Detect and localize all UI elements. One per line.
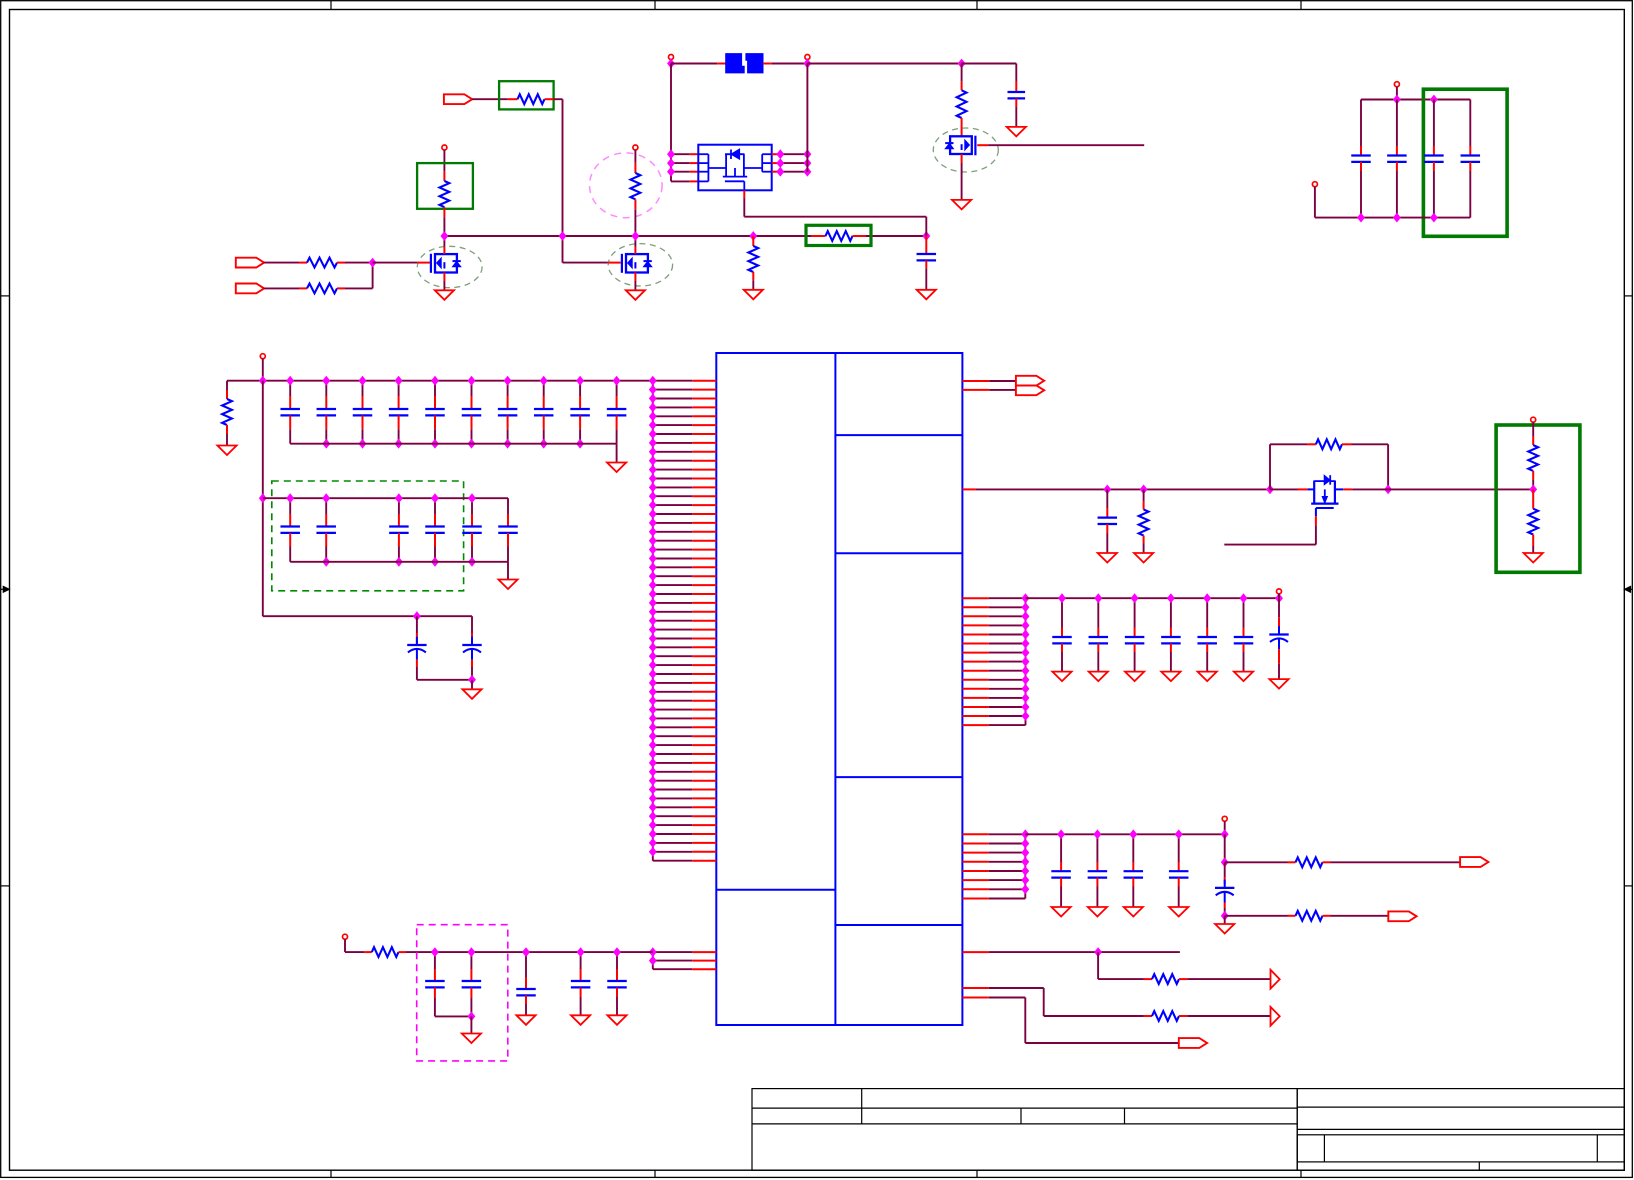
M2 source lead down	[634, 273, 636, 282]
U1 right pin wire D1 (y=952.1)	[962, 951, 989, 953]
wire P4 to R2	[264, 287, 299, 289]
title block right row line 2	[1297, 1128, 1624, 1130]
U1 left pin wire 44	[653, 762, 693, 764]
junction U1 left pin 22	[650, 563, 657, 571]
ground below divider	[1524, 553, 1543, 563]
junction U1 left pin 44	[650, 759, 657, 767]
junction U2 right pin 2 dots	[777, 159, 784, 167]
U1 left pin wire 8	[653, 442, 693, 444]
capacitor C-snub at right end of VSW	[925, 236, 927, 254]
fuse F1 (solid blue body)	[726, 54, 745, 73]
capacitor C3 (on net B)	[1106, 489, 1108, 508]
feed wire to bulk caps y=616.2	[263, 615, 472, 617]
port P4 (bottom left input 2)	[236, 284, 264, 294]
U2 right pin wire 2	[772, 162, 781, 164]
vertical feed from T3 to dual-FET left pins x=671.4	[670, 64, 672, 182]
resistor RN1 (horizontal, in green box)	[508, 98, 518, 100]
junction group3 pin 9	[1022, 667, 1029, 675]
capacitor C11a	[1360, 100, 1362, 147]
junction C7b on net	[468, 948, 475, 956]
capacitor C2d (group 2 4)	[434, 498, 436, 514]
U1 left pin wire 46	[653, 780, 693, 782]
magenta dashed group box around C7a/C7b	[417, 925, 508, 1061]
title block left section outline	[752, 1089, 1297, 1171]
U1 left pin wire 28	[653, 620, 693, 622]
junction quad bottom at C11a	[1358, 214, 1365, 222]
U1 left pin wire 54	[653, 851, 693, 853]
wire net-B junction to Q4 left stub	[1270, 488, 1298, 490]
wire Q4 right stub to junction	[1352, 488, 1388, 490]
T11 stub down to bottom bus	[1314, 187, 1316, 218]
terminal T3 (left of fuse F1)	[669, 55, 674, 60]
U1 bottom-left pin wire 2	[653, 960, 693, 962]
ground below R11	[1134, 553, 1153, 563]
terminal T11 (return of quad cap group)	[1312, 182, 1317, 187]
junction U1 left pin 7	[650, 430, 657, 438]
junction group4 pin 6	[1022, 876, 1029, 884]
junction top bank bottom bus 7	[540, 440, 547, 448]
junction U1 left pin 23	[650, 572, 657, 580]
U1 left pin wire 31	[653, 646, 693, 648]
junction C5a top	[1058, 830, 1065, 838]
resistor R4 (vertical, in green box)	[443, 172, 445, 181]
U1 right group3 pin wire 3	[962, 615, 989, 617]
junction U1 left pin 9	[650, 448, 657, 456]
Q3 gate lead wire to the right	[977, 144, 988, 146]
resistor R6 (vertical to ground)	[752, 236, 754, 246]
resistor R1 (horizontal)	[299, 262, 307, 264]
title block left row line 2	[752, 1123, 1297, 1125]
junction U1 left pin 1 (bus top)	[650, 377, 657, 385]
quad cap bottom bus y=217.6	[1315, 217, 1470, 219]
U1 right group3 pin wire 10	[962, 679, 989, 681]
junction C1g top	[504, 377, 511, 385]
junction group2 top bus	[396, 494, 403, 502]
junction U2 right pin 1 dots	[777, 150, 784, 158]
ground below C5b	[1088, 907, 1107, 917]
junction bulk rail at CB2	[469, 676, 476, 684]
ground below group2	[498, 580, 517, 590]
junction U2 right pin 3 dots	[777, 168, 784, 176]
junction U1 left pin 19	[650, 537, 657, 545]
junction VSW at C-snub	[923, 232, 930, 240]
U1 left pin wire 13	[653, 486, 693, 488]
junction group2 bottom bus	[323, 558, 330, 566]
M2 drain lead up to bus	[634, 236, 636, 247]
capacitor C1h (top bank 8)	[543, 381, 545, 396]
capacitor C1j (top bank 10)	[616, 381, 618, 396]
junction C7a on net	[432, 948, 439, 956]
vertical feed wire x=262.8 from bus1 down	[262, 381, 264, 617]
U1 left pin wire 41	[653, 735, 693, 737]
junction group3 pin 3	[1022, 612, 1029, 620]
ground below R9	[217, 446, 236, 456]
junction group4 bus end	[1221, 830, 1228, 838]
U1 left pin wire 19	[653, 540, 693, 542]
junction U1 bottom-left pin 2	[650, 957, 657, 965]
junction U1 left pin 35	[650, 679, 657, 687]
junction U1 left pin 25	[650, 590, 657, 598]
U2 right pin wire 1	[772, 153, 781, 155]
junction U1 left pin 5	[650, 412, 657, 420]
junction C4e top	[1204, 594, 1211, 602]
U1 left pin wire 26	[653, 602, 693, 604]
capacitor C1c (top bank 3)	[362, 381, 364, 396]
junction group2 bottom bus	[396, 558, 403, 566]
junction C7 rail	[468, 1012, 475, 1020]
wire C7 rail to ground	[470, 1016, 472, 1033]
junction top bank bottom bus 4	[432, 440, 439, 448]
wire net-B to divider green box	[1388, 488, 1533, 490]
junction U1 left pin 18	[650, 528, 657, 536]
U1 left pin wire 50	[653, 815, 693, 817]
capacitor C4a (group3 1)	[1061, 598, 1063, 627]
junction C1b top	[323, 377, 330, 385]
capacitor C5d (group4 4)	[1178, 834, 1180, 862]
junction net-B at R11	[1140, 485, 1147, 493]
junction node G1	[369, 259, 376, 267]
junction U1 left pin 29	[650, 626, 657, 634]
border zone tick top 3	[976, 1, 978, 10]
wire group2 to ground	[507, 562, 509, 580]
U1 left pin wire 17	[653, 522, 693, 524]
bulk capacitor CB1 (polarized)	[416, 616, 418, 633]
junction group4 pin 7	[1022, 885, 1029, 893]
U2 internal body diode	[731, 149, 740, 159]
U1 right pin wire D3 (y=997.5)	[962, 997, 989, 999]
bottom supply net y=952.1	[406, 951, 653, 953]
junction group3 pin 5	[1022, 630, 1029, 638]
ground below C8	[516, 1015, 535, 1025]
ground below C5a	[1052, 907, 1071, 917]
bulk capacitor CB2 (polarized)	[471, 616, 473, 633]
wire R15 to port P8	[1331, 915, 1389, 917]
green highlight box around resistor RN1	[499, 81, 553, 109]
junction group4 pin 3	[1022, 849, 1029, 857]
junction U1 left pin 40	[650, 723, 657, 731]
junction C1i top	[577, 377, 584, 385]
transistor M1 (N-MOSFET, dashed ellipse)	[417, 246, 482, 287]
IC U1 right column divider 2	[835, 552, 962, 554]
junction bulk cap CB1	[414, 612, 421, 620]
wire T3 stub	[670, 60, 672, 64]
junction group3 pin 1	[1022, 594, 1029, 602]
junction U1 left pin 47	[650, 785, 657, 793]
wire D3 down	[1024, 998, 1026, 1044]
U1 left pin wire 53	[653, 842, 693, 844]
U1 right group3 pin wire 4	[962, 624, 989, 626]
dual-FET U2 left pin wire 1	[671, 153, 690, 155]
terminal T10 (top of quad cap group)	[1394, 82, 1399, 87]
arrow A2 (open output arrow)	[1271, 1007, 1280, 1026]
junction net-B at Q4 left	[1267, 485, 1274, 493]
capacitor C1i (top bank 9)	[579, 381, 581, 396]
junction top bank bottom bus 5	[468, 440, 475, 448]
wire R5 to bus junction	[634, 210, 636, 236]
title block left divider B	[1020, 1108, 1022, 1124]
IC U1 internal divider vertical	[834, 353, 836, 1025]
ground below C5d	[1169, 907, 1188, 917]
U1 left pin wire 16	[653, 513, 693, 515]
junction U1 left pin 37	[650, 697, 657, 705]
U1 left pin wire 23	[653, 575, 693, 577]
wire R4 to bus junction	[443, 217, 445, 236]
U1 left pin wire 10	[653, 460, 693, 462]
wire RC bottom to ground	[1224, 916, 1226, 924]
IC U1 left pin field bus x=652.8	[652, 381, 654, 861]
border centering arrow left	[1, 588, 10, 590]
ground below C7 group	[462, 1034, 481, 1044]
M1 source lead down	[443, 273, 445, 282]
junction C5b top	[1094, 830, 1101, 838]
junction U1 left pin 6	[650, 421, 657, 429]
Q4 substrate arrow	[1324, 489, 1326, 496]
ground below C4f	[1234, 672, 1253, 682]
U1 left pin wire 21	[653, 558, 693, 560]
junction U1 left pin 14	[650, 492, 657, 500]
junction U1 left pin 38	[650, 706, 657, 714]
ground below C4a	[1052, 672, 1071, 682]
U1 left pin wire 39	[653, 717, 693, 719]
junction group4 pin 4	[1022, 858, 1029, 866]
junction top bank bottom bus 1	[323, 440, 330, 448]
U1 left pin wire 15	[653, 504, 693, 506]
U1 left pin wire 2	[653, 389, 693, 391]
terminal T1 above R4	[442, 145, 447, 150]
junction U1 left pin 43	[650, 750, 657, 758]
ground below C4c	[1125, 672, 1144, 682]
resistor R9 (bleed, left of cap bank)	[226, 381, 228, 390]
border zone tick right 2	[1624, 885, 1632, 887]
wire D2 to R17	[1044, 1015, 1144, 1017]
resistor R13 (divider bottom)	[1532, 489, 1534, 508]
U1 left pin wire 18	[653, 531, 693, 533]
wire branch to R16	[1098, 978, 1144, 980]
junction U1 left pin 53	[650, 839, 657, 847]
junction U1 left pin 32	[650, 652, 657, 660]
capacitor C11b	[1396, 100, 1398, 147]
ground below bulk caps	[462, 689, 481, 699]
junction quad bottom at C11b	[1394, 214, 1401, 222]
ground below C9	[571, 1015, 590, 1025]
U1 right pin wire A1 (to port pair)	[962, 380, 989, 382]
capacitor C1d (top bank 4)	[398, 381, 400, 396]
junction group3 pin 13	[1022, 703, 1029, 711]
cap bank top bus y=380.7	[227, 380, 653, 382]
IC U1 right column divider 4	[835, 924, 962, 926]
wire bus end down to RC node	[1224, 834, 1226, 862]
wire D1 branch down	[1097, 952, 1099, 979]
junction U1 left pin 8	[650, 439, 657, 447]
junction RC node top	[1221, 858, 1228, 866]
U1 right group3 pin wire 15	[962, 724, 989, 726]
wire R14 to port P7	[1331, 861, 1461, 863]
vertical feed T4 down to U2 right pins x=807.4	[806, 64, 808, 172]
border zone tick bottom 2	[654, 1170, 656, 1178]
junction quad bottom at C11c	[1431, 214, 1438, 222]
Q4 bypass loop right leg	[1387, 444, 1389, 489]
ground below C5c	[1124, 907, 1143, 917]
green highlight box around resistor R7	[806, 225, 871, 245]
quad cap top bus y=99.5	[1361, 99, 1470, 101]
U1 right group3 pin wire 12	[962, 697, 989, 699]
junction C5d top	[1175, 830, 1182, 838]
Q4 bypass loop left leg	[1269, 444, 1271, 489]
border zone tick top 1	[330, 1, 332, 10]
U2 internal mosfet lines	[725, 153, 745, 155]
junction U1 left pin 27	[650, 608, 657, 616]
ground below R6	[744, 290, 763, 300]
junction top bank bottom bus 2	[359, 440, 366, 448]
wire P1 to RN1 box	[472, 98, 508, 100]
junction U1 left pin 54	[650, 848, 657, 856]
junction U2 left pin 1	[668, 150, 675, 158]
IC U1 right column divider 3	[835, 776, 962, 778]
Q4 loop top wire left	[1270, 443, 1307, 445]
U1 left pin wire 27	[653, 611, 693, 613]
border centering arrow right	[1624, 588, 1632, 590]
junction group2 bottom bus	[469, 558, 476, 566]
U1 left pin wire 36	[653, 691, 693, 693]
border zone tick bottom 3	[976, 1170, 978, 1178]
U1 left pin wire 40	[653, 726, 693, 728]
U1 left pin wire 3	[653, 398, 693, 400]
ground below M2	[626, 290, 645, 300]
U1 right pin group4 bus x=1025.3	[1024, 834, 1026, 898]
junction group3 pin 8	[1022, 658, 1029, 666]
ground below C-in	[1007, 127, 1026, 136]
pink dashed ellipse around resistor R5	[590, 153, 663, 218]
junction C1f top	[468, 377, 475, 385]
junction U1 left pin 41	[650, 732, 657, 740]
U1 left pin wire 34	[653, 673, 693, 675]
capacitor C8	[525, 952, 527, 977]
U1 left pin wire 25	[653, 593, 693, 595]
title block right inner box	[1297, 1135, 1624, 1162]
resistor R12 (divider top)	[1532, 422, 1534, 436]
junction C1d top	[395, 377, 402, 385]
title block left divider A	[861, 1089, 863, 1124]
U1 left pin wire 14	[653, 495, 693, 497]
title block right inner divider A	[1323, 1135, 1325, 1162]
junction C4d top	[1168, 594, 1175, 602]
U1 left pin wire 38	[653, 709, 693, 711]
capacitor C5b (group4 2)	[1096, 834, 1098, 862]
capacitor C10	[616, 952, 618, 969]
U1 left pin wire 49	[653, 806, 693, 808]
IC U1 right column divider 1	[835, 434, 962, 436]
capacitor C2a (group 2 1)	[289, 498, 291, 514]
junction at T3	[668, 59, 675, 67]
port P9	[1179, 1038, 1207, 1048]
U1 left pin wire 7	[653, 433, 693, 435]
wire D3 to port P9	[1025, 1042, 1179, 1044]
arrow A1 (open output arrow)	[1271, 970, 1280, 989]
U1 right group4 pin wire 3	[962, 852, 989, 854]
green highlight box around divider R12/R13	[1496, 425, 1580, 572]
junction group4 pin 5	[1022, 867, 1029, 875]
capacitor C2b (group 2 2)	[325, 498, 327, 514]
junction U1 bottom-left pin 1	[650, 948, 657, 956]
junction C4b top	[1095, 594, 1102, 602]
title block right bottom divider	[1478, 1162, 1480, 1170]
junction U1 left pin 28	[650, 617, 657, 625]
border zone tick right 1	[1624, 295, 1632, 297]
capacitor C1g (top bank 7)	[507, 381, 509, 396]
terminal T5 (supply for cap bank)	[260, 354, 265, 359]
border zone tick bottom 1	[330, 1170, 332, 1178]
capacitor C4e (group3 5)	[1206, 598, 1208, 627]
border zone tick left 1	[1, 295, 10, 297]
U1 right group3 pin wire 6	[962, 643, 989, 645]
Q3 source lead down	[961, 154, 963, 163]
resistor R2 (horizontal)	[299, 287, 307, 289]
wire D2 down	[1043, 988, 1045, 1016]
junction U1 left pin 36	[650, 688, 657, 696]
junction U1 left pin 26	[650, 599, 657, 607]
Q4 gate bar	[1311, 503, 1338, 505]
wire R16 to arrow A1	[1187, 978, 1270, 980]
U1 left pin wire 9	[653, 451, 693, 453]
capacitor C1f (top bank 6)	[471, 381, 473, 396]
junction feed at second bus	[260, 494, 267, 502]
junction top bank bottom bus 8	[577, 440, 584, 448]
port P5 (output pair top)	[1016, 376, 1044, 386]
junction U1 left pin 4	[650, 403, 657, 411]
terminal T9 (bottom left supply)	[343, 934, 348, 939]
junction top bank bottom bus 3	[395, 440, 402, 448]
U1 right group3 pin wire 2	[962, 606, 989, 608]
junction C1e top	[432, 377, 439, 385]
U1 right pin wire A2	[962, 389, 989, 391]
Q4 loop top wire right	[1352, 443, 1389, 445]
capacitor C-in (top right of fuse net)	[1015, 64, 1017, 82]
junction U1 left pin 24	[650, 581, 657, 589]
U1 right pin wire D2 (y=988.0)	[962, 987, 989, 989]
junction divider mid	[1530, 485, 1537, 493]
junction group3 pin 2	[1022, 603, 1029, 611]
U1 left pin wire 51	[653, 824, 693, 826]
U1 left pin wire 29	[653, 629, 693, 631]
junction U1 left pin 49	[650, 803, 657, 811]
capacitor C4c (group3 3)	[1134, 598, 1136, 627]
junction C5c top	[1130, 830, 1137, 838]
junction group2 top bus	[287, 494, 294, 502]
title block left divider C	[1124, 1108, 1126, 1124]
junction U1 left pin 17	[650, 519, 657, 527]
top net wire T4 to R8 junction	[807, 63, 961, 65]
wire R2 right then up to node G1	[345, 287, 373, 289]
junction group3 pin 14	[1022, 712, 1029, 720]
junction group2 top bus	[323, 494, 330, 502]
U1 bottom-left pin wire 1	[653, 951, 693, 953]
transistor Q3 (P-MOSFET, dashed ellipse)	[933, 128, 998, 172]
ground below C6	[1215, 924, 1234, 934]
junction C8 on net	[523, 948, 530, 956]
wire fuse F1 to T4	[763, 63, 772, 65]
wire R17 to arrow A2	[1187, 1015, 1270, 1017]
U1 left pin wire 35	[653, 682, 693, 684]
second group bottom bus y=561.8	[290, 561, 508, 563]
capacitor C9	[580, 952, 582, 969]
junction C1j top	[613, 377, 620, 385]
title block right section outline	[1297, 1089, 1624, 1171]
terminal T6 above divider	[1531, 417, 1536, 422]
U1 right group3 pin wire 7	[962, 652, 989, 654]
junction group2 top bus	[432, 494, 439, 502]
U1 right pin group3 bus x=1025.5	[1025, 598, 1027, 725]
U1 left pin wire 30	[653, 638, 693, 640]
